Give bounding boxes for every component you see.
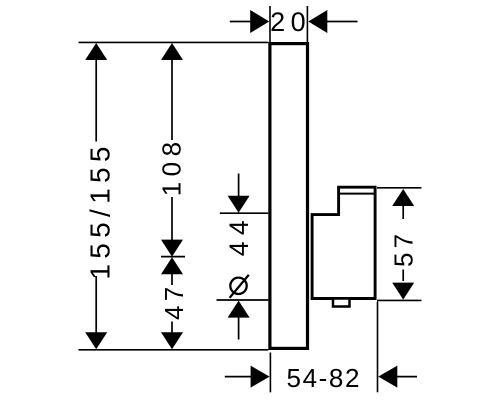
dimension 57: top extension line — [377, 187, 422, 189]
dimension 47: line lower segment — [171, 322, 173, 334]
body bottom edge — [311, 297, 377, 300]
plate outline (wall plate, side view) — [270, 44, 308, 349]
dimension 57: lower stem — [402, 270, 404, 282]
dimension 54-82: right tail — [396, 376, 417, 378]
svg-text:47: 47 — [159, 282, 189, 320]
svg-text:108: 108 — [156, 136, 186, 196]
dimension 54-82: left arrow — [251, 366, 270, 388]
valve body with knob (outline) — [312, 187, 375, 298]
dimension diameter 44: upper stem — [238, 174, 240, 198]
dimension 57: upper arrow (up) — [392, 189, 414, 206]
diameter symbol — [230, 275, 249, 298]
dimension 20: left tail — [230, 21, 252, 23]
dimension 54-82: right extension line — [377, 302, 379, 393]
dimension 57: lower arrow (down) — [392, 283, 414, 300]
dimension 47: line upper segment — [171, 273, 173, 285]
tick at plate hole top — [220, 212, 268, 214]
svg-text:57: 57 — [389, 230, 419, 267]
dimension 20: left extension line — [269, 6, 271, 42]
dimension 54-82: left extension line — [269, 353, 271, 393]
bottom extension line — [79, 349, 269, 351]
dimension 20: right extension line — [306, 6, 308, 42]
dimension diameter 44: upper arrow (down) — [228, 196, 250, 213]
dimension 57: bottom extension line — [377, 299, 422, 301]
svg-text:155/155: 155/155 — [85, 141, 116, 279]
dimension 155/155: line lower segment — [95, 276, 97, 334]
dimension 20: left arrow — [250, 10, 269, 33]
dimension 155/155: upper arrow — [85, 43, 107, 60]
dimension 108: upper arrow — [161, 43, 183, 60]
dimension diameter 44: lower arrow (up) — [228, 301, 250, 318]
dimension 155/155: line upper segment — [95, 59, 97, 142]
svg-text:20: 20 — [270, 7, 311, 37]
tick at plate hole bottom — [217, 299, 269, 301]
dimension diameter 44: lower stem — [238, 317, 240, 340]
top extension line — [79, 41, 269, 43]
dimension 47: lower arrow — [161, 332, 183, 349]
dimension 57: upper stem — [402, 205, 404, 219]
tick between 108 and 47 — [161, 256, 185, 258]
dimension 54-82: left tail — [225, 376, 252, 378]
dimension 47: upper arrow — [161, 257, 183, 274]
svg-text:44: 44 — [224, 214, 254, 256]
dimension 155/155: lower arrow — [85, 332, 107, 349]
svg-text:54-82: 54-82 — [287, 363, 362, 393]
dimension 108: lower arrow — [161, 240, 183, 257]
dimension 20: right tail — [326, 21, 358, 23]
dimension 108: line upper segment — [171, 59, 173, 140]
dimension 108: line lower segment — [171, 197, 173, 241]
knob inner line — [337, 193, 376, 195]
dimension 20: right arrow — [308, 10, 327, 33]
dimension 54-82: right arrow — [378, 366, 397, 388]
bottom tab — [333, 299, 350, 307]
